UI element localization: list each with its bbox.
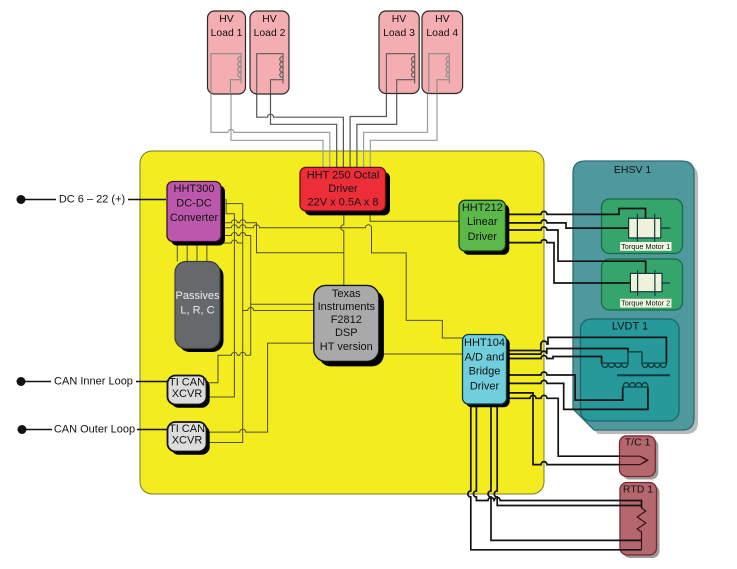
svg-text:HT version: HT version [320, 341, 373, 353]
svg-text:LVDT 1: LVDT 1 [612, 321, 648, 333]
svg-text:Load 4: Load 4 [426, 28, 458, 39]
LVDT secondary winding left [602, 363, 628, 367]
svg-text:HHT104: HHT104 [464, 337, 505, 349]
svg-text:Linear: Linear [467, 216, 498, 228]
wire DC-DC to passives 2 [186, 241, 188, 262]
svg-text:Torque Motor 1: Torque Motor 1 [621, 242, 670, 251]
svg-text:HV: HV [262, 14, 277, 25]
svg-text:DC 6 – 22 (+): DC 6 – 22 (+) [59, 194, 125, 206]
svg-text:Load 1: Load 1 [211, 28, 243, 39]
wire HV Load 1 left lead to driver pin 2 [211, 94, 330, 168]
svg-text:HV: HV [219, 14, 234, 25]
svg-text:F2812: F2812 [331, 314, 362, 326]
passives block [175, 262, 224, 353]
torque motor 2 label [620, 299, 672, 308]
wire rail 4 branch to DSP [251, 303, 315, 305]
wire driver pin 7 to HV Load 4 left lead [364, 94, 428, 168]
wire HHT104 to RTD force high [473, 404, 641, 508]
node CAN Inner Loop [17, 376, 168, 388]
svg-text:L, R, C: L, R, C [180, 305, 214, 317]
torque motor 2 enclosure [602, 259, 683, 310]
input node DC 6-22 [17, 194, 167, 206]
svg-text:CAN Inner Loop: CAN Inner Loop [54, 376, 133, 388]
thermocouple junction symbol [620, 456, 648, 464]
LVDT secondary winding right [642, 363, 666, 367]
HV Load 3 box [379, 11, 419, 94]
LVDT core [617, 374, 670, 376]
LVDT secondary series link [628, 352, 642, 363]
wire octal driver to HHT212 [370, 211, 459, 221]
svg-text:HV: HV [435, 14, 450, 25]
svg-text:XCVR: XCVR [172, 435, 203, 447]
wire DC-DC rail 4 [221, 233, 251, 356]
wire CAN XCVR 1 to DSP [205, 352, 251, 382]
HV Load 2 box [250, 11, 289, 94]
svg-text:22V x 0.5A x 8: 22V x 0.5A x 8 [308, 197, 379, 209]
svg-text:RTD 1: RTD 1 [623, 484, 653, 496]
torque motor 2 symbol [630, 273, 662, 291]
svg-text:HHT300: HHT300 [174, 183, 215, 195]
wire HHT104 to LVDT primary right [504, 380, 648, 409]
svg-text:A/D and: A/D and [465, 352, 505, 364]
wire HHT104 to RTD force low [494, 404, 641, 506]
svg-text:TI CAN: TI CAN [169, 423, 205, 435]
wire HV Load 2 right lead to driver pin 3 [271, 94, 337, 168]
main controller board (yellow region) [140, 151, 544, 494]
svg-text:Texas: Texas [332, 288, 361, 300]
svg-text:HHT 250 Octal: HHT 250 Octal [307, 170, 380, 182]
wire bus B to CAN XCVR 2 [205, 204, 243, 443]
HV Load 1 box [208, 11, 246, 94]
svg-text:Driver: Driver [468, 231, 498, 243]
wire DSP to HHT104 [379, 353, 463, 355]
wire HHT104 to LVDT secondary right [504, 337, 666, 363]
wire HHT212 to torque motor 1 armature [504, 220, 629, 228]
wire DC-DC rail 1 to DSP feed [221, 220, 344, 253]
HHT300 DC-DC converter box [167, 182, 225, 246]
torque motor 1 label [620, 242, 672, 251]
EHSV 1 assembly box [573, 161, 698, 434]
LVDT 1 enclosure [581, 319, 680, 421]
wire DC-DC to passives 4 [206, 241, 208, 262]
wire HHT212 to torque motor 1 coil top [504, 209, 646, 219]
wire HHT104 to LVDT secondary left [504, 356, 602, 364]
wire HHT212 to torque motor 2 coil top [504, 227, 646, 273]
wire HV Load 2 left lead to driver pin 4 [257, 94, 344, 168]
inductor coil of HV Load 1 [211, 54, 241, 94]
svg-text:Instruments: Instruments [318, 301, 376, 313]
svg-text:Driver: Driver [470, 381, 500, 393]
wire driver pin 5 to HV Load 3 left lead [350, 94, 386, 168]
wire HHT104 to T/C 1 lower lead [504, 393, 620, 465]
TI F2812 DSP box [314, 285, 384, 366]
wire HHT104 to LVDT secondary centre tap [504, 349, 628, 355]
svg-text:DC-DC: DC-DC [176, 198, 211, 210]
wire HHT104 to RTD sense low [468, 404, 642, 550]
HHT 250 octal driver box [300, 167, 390, 215]
wire bus A to CAN XCVR 1 [205, 200, 234, 397]
node CAN Outer Loop [18, 424, 169, 436]
svg-text:Torque Motor 2: Torque Motor 2 [621, 299, 670, 308]
wire CAN XCVR 2 to DSP [206, 343, 315, 432]
svg-text:Load 3: Load 3 [383, 28, 415, 39]
svg-text:Driver: Driver [328, 183, 358, 195]
svg-text:T/C 1: T/C 1 [625, 436, 651, 448]
torque motor 1 symbol [629, 218, 661, 238]
HHT212 linear driver box [459, 200, 509, 255]
wire driver pin 8 to HV Load 4 right lead [370, 94, 437, 168]
svg-text:HV: HV [392, 14, 407, 25]
svg-text:HHT212: HHT212 [462, 202, 503, 214]
wire HHT212 to torque motor 2 armature [504, 240, 630, 283]
wire DC-DC to passives 1 [176, 241, 178, 262]
svg-text:Bridge: Bridge [469, 366, 501, 378]
inductor coil of HV Load 2 [257, 54, 283, 94]
svg-text:Passives: Passives [175, 290, 220, 302]
svg-text:Load 2: Load 2 [254, 28, 286, 39]
torque motor 1 enclosure [602, 199, 683, 254]
wire bus B branch to DSP [243, 308, 315, 311]
wire driver pin 6 to HV Load 3 right lead [357, 94, 397, 168]
TI CAN XCVR 1 box [168, 376, 210, 408]
svg-text:XCVR: XCVR [172, 388, 203, 400]
thermocouple T/C 1 box [620, 436, 659, 480]
inductor coil of HV Load 3 [386, 54, 414, 94]
wire DC-DC to passives 3 [196, 241, 198, 262]
svg-text:EHSV 1: EHSV 1 [614, 164, 652, 176]
wire DC-DC rail 3 to HHT104 [221, 225, 463, 338]
wire HHT104 to T/C 1 upper lead [504, 395, 620, 456]
svg-text:TI CAN: TI CAN [169, 377, 205, 389]
wire octal driver to DSP [341, 211, 344, 286]
HV Load 4 box [422, 11, 463, 94]
wire DC-DC rail 5 [221, 240, 243, 243]
RTD 1 box [620, 483, 660, 559]
svg-text:DSP: DSP [335, 327, 358, 339]
inductor coil of HV Load 4 [429, 54, 450, 94]
TI CAN XCVR 2 box [168, 422, 210, 455]
svg-text:Converter: Converter [170, 212, 219, 224]
LVDT primary winding [623, 383, 648, 387]
wire HV Load 1 right lead to driver pin 1 [231, 94, 323, 168]
wire HHT104 to RTD sense high [488, 404, 642, 540]
resistor element of RTD 1 [637, 508, 646, 550]
HHT104 A/D bridge driver box [463, 335, 510, 408]
svg-text:CAN Outer Loop: CAN Outer Loop [54, 424, 135, 436]
wire HHT104 to LVDT primary left [504, 372, 623, 400]
